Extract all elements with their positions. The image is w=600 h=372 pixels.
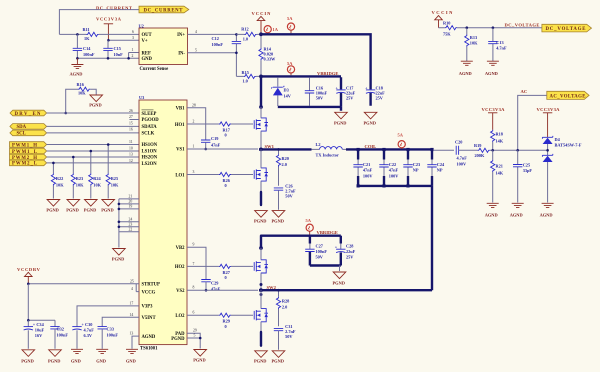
svg-text:R15: R15 xyxy=(242,70,249,75)
svg-text:R20: R20 xyxy=(282,156,289,161)
svg-text:12: 12 xyxy=(129,159,133,163)
svg-text:Current Sense: Current Sense xyxy=(140,67,169,72)
capacitor C31 xyxy=(274,328,283,330)
svg-text:14: 14 xyxy=(130,313,134,317)
svg-text:1: 1 xyxy=(193,144,195,148)
svg-text:R19: R19 xyxy=(474,143,481,148)
svg-text:100nF: 100nF xyxy=(107,332,119,337)
svg-text:1K: 1K xyxy=(84,36,90,41)
svg-text:6: 6 xyxy=(193,311,195,315)
ground AGND (R13) xyxy=(461,61,473,65)
svg-text:25V: 25V xyxy=(346,95,354,100)
svg-text:100nF: 100nF xyxy=(83,52,95,57)
svg-text:AGND: AGND xyxy=(510,212,523,217)
svg-text:75K: 75K xyxy=(443,32,451,37)
svg-text:C33: C33 xyxy=(107,327,114,332)
resistor R12 xyxy=(236,33,261,35)
svg-text:25V: 25V xyxy=(346,254,354,259)
svg-text:15: 15 xyxy=(129,121,133,125)
svg-text:SDA: SDA xyxy=(17,125,27,130)
svg-text:AGND: AGND xyxy=(485,212,498,217)
resistor R14 shunt xyxy=(260,35,262,75)
svg-text:IN-: IN- xyxy=(178,52,185,57)
svg-text:VCCDRV: VCCDRV xyxy=(17,267,41,272)
resistor R28 snubber xyxy=(278,290,280,326)
wire HO2 xyxy=(187,265,253,267)
svg-text:47nF: 47nF xyxy=(389,168,399,173)
svg-text:C32: C32 xyxy=(57,327,64,332)
capacitor C29 xyxy=(201,280,210,282)
svg-text:HO1: HO1 xyxy=(175,123,185,128)
svg-text:AC: AC xyxy=(521,89,528,94)
svg-text:VCC3V3A: VCC3V3A xyxy=(537,107,561,112)
svg-text:PGND: PGND xyxy=(89,103,101,108)
svg-text:19: 19 xyxy=(129,205,133,209)
U3 unused pin group 24,23,22 stubs xyxy=(119,222,139,232)
svg-text:4: 4 xyxy=(195,30,197,34)
ground PGND (C26) xyxy=(272,211,285,218)
svg-text:C25: C25 xyxy=(523,162,530,167)
svg-text:24: 24 xyxy=(129,217,133,221)
wire PWM2_L xyxy=(47,162,139,164)
svg-text:GND: GND xyxy=(71,359,81,364)
wire DC_VOLTAGE net xyxy=(467,27,542,29)
ground AGND (R21) xyxy=(487,203,499,207)
capacitor C23 xyxy=(407,149,409,159)
wire VCCIN bus (thick) xyxy=(261,34,371,82)
svg-text:50V: 50V xyxy=(285,334,293,339)
svg-text:10nF: 10nF xyxy=(114,52,124,57)
svg-text:NP: NP xyxy=(437,168,443,173)
wire V5INT to C33 xyxy=(102,317,139,326)
wire VBRIDGE lower rail (thick) xyxy=(278,107,341,111)
svg-text:11: 11 xyxy=(129,140,133,144)
svg-text:TX Inductor: TX Inductor xyxy=(316,152,339,157)
wire V3P3 to C30 xyxy=(77,306,139,327)
resistor R23 xyxy=(72,157,74,199)
svg-text:PGND: PGND xyxy=(272,359,284,364)
ground PGND (C34) xyxy=(22,350,35,357)
node junction C14 top xyxy=(76,33,79,36)
resistor R24 xyxy=(90,151,92,199)
svg-text:1.0: 1.0 xyxy=(243,37,248,42)
svg-text:AGND: AGND xyxy=(485,71,498,76)
U3 right pin numbers xyxy=(192,103,197,337)
capacitor C12 xyxy=(235,34,237,52)
svg-text:PGND: PGND xyxy=(193,358,205,363)
svg-text:13: 13 xyxy=(130,332,134,336)
wire SW1 bus (thick) xyxy=(259,148,312,150)
svg-text:C12: C12 xyxy=(212,36,219,41)
svg-text:10K: 10K xyxy=(111,183,119,188)
svg-text:13: 13 xyxy=(129,153,133,157)
svg-text:47nF: 47nF xyxy=(211,287,221,292)
svg-text:R12: R12 xyxy=(241,27,248,32)
svg-text:2: 2 xyxy=(193,120,195,124)
wire VBRIDGE bus (thick) xyxy=(261,75,341,77)
svg-text:4: 4 xyxy=(131,287,133,291)
svg-text:5A: 5A xyxy=(287,61,293,66)
svg-text:22uF: 22uF xyxy=(346,249,356,254)
port DRV_EN xyxy=(10,110,47,117)
svg-text:R24: R24 xyxy=(93,176,101,181)
capacitor C22 xyxy=(383,149,385,159)
svg-text:PGND: PGND xyxy=(272,218,284,223)
capacitor C13 xyxy=(492,28,494,61)
svg-text:16: 16 xyxy=(129,128,133,132)
wire PWM1_H xyxy=(47,144,139,146)
svg-text:R28: R28 xyxy=(282,299,289,304)
ground GND (U3 agnd) xyxy=(126,349,138,353)
svg-text:0: 0 xyxy=(225,183,227,188)
capacitor C28 xyxy=(340,236,342,244)
ground PGND (R23) xyxy=(67,200,80,207)
svg-text:VS2: VS2 xyxy=(176,289,185,294)
svg-text:STRTUP: STRTUP xyxy=(142,282,160,287)
wire Q3 source to SW2 xyxy=(260,273,262,289)
svg-text:PGND: PGND xyxy=(334,120,346,125)
wire VCCDRV down xyxy=(28,284,55,327)
wire SDA xyxy=(47,125,139,127)
capacitor C14 xyxy=(76,34,78,58)
svg-text:GND: GND xyxy=(142,57,153,62)
svg-text:20: 20 xyxy=(129,200,133,204)
capacitor C30 xyxy=(72,327,81,330)
wire PWM1_L xyxy=(47,150,139,152)
wire COIL to C20 xyxy=(433,149,454,151)
resistor R11 xyxy=(87,32,99,36)
transistor Q3 high-side xyxy=(254,260,268,273)
svg-text:PGND: PGND xyxy=(254,359,266,364)
fuse probe 1A xyxy=(264,26,271,33)
svg-text:AGND: AGND xyxy=(459,71,472,76)
ground AGND (C25) xyxy=(512,203,524,207)
wire Q4 source stub xyxy=(260,322,262,331)
U3 left pin names xyxy=(142,110,160,340)
ground PGND (unused pins) xyxy=(113,249,126,256)
svg-text:25V: 25V xyxy=(376,95,384,100)
wire VBRIDGE2 bus (thick) xyxy=(261,234,341,236)
svg-text:OUT: OUT xyxy=(142,33,153,38)
svg-text:AGND: AGND xyxy=(540,212,553,217)
ground PGND (C27/C28) xyxy=(333,272,346,279)
wire VB1 to C19 xyxy=(187,108,206,140)
resistor R19 xyxy=(478,148,490,152)
svg-text:R16: R16 xyxy=(77,82,85,87)
svg-text:100nF: 100nF xyxy=(316,249,328,254)
svg-text:47nF: 47nF xyxy=(211,143,221,148)
wire PWM2_H xyxy=(47,156,139,158)
svg-text:100V: 100V xyxy=(363,173,373,178)
capacitor C33 xyxy=(98,327,107,329)
svg-text:10K: 10K xyxy=(93,183,101,188)
svg-text:C19: C19 xyxy=(211,136,218,141)
svg-text:DRV_EN: DRV_EN xyxy=(15,112,42,117)
svg-text:PGND: PGND xyxy=(84,208,96,213)
ground PGND (R25) xyxy=(102,200,115,207)
svg-text:26: 26 xyxy=(129,109,133,113)
svg-text:C22: C22 xyxy=(389,162,396,167)
resistor R16 xyxy=(66,89,97,113)
svg-text:100nF: 100nF xyxy=(57,332,69,337)
svg-text:10uF: 10uF xyxy=(35,328,45,333)
op-amp U2 current sense box xyxy=(132,23,198,72)
svg-text:GND: GND xyxy=(126,359,136,364)
svg-text:100nF: 100nF xyxy=(212,42,224,47)
wire C27/C28 bottom bus (thick) xyxy=(310,264,341,266)
svg-text:5A: 5A xyxy=(398,133,404,138)
ground PGND (U3 pad) xyxy=(194,350,207,357)
svg-text:100V: 100V xyxy=(389,173,399,178)
svg-text:AGND: AGND xyxy=(142,335,156,340)
svg-text:47nF: 47nF xyxy=(363,168,373,173)
svg-text:1A: 1A xyxy=(273,27,279,32)
svg-text:PGND: PGND xyxy=(333,280,345,285)
transistor Q4 low-side xyxy=(254,309,268,322)
wire Q2 source stub xyxy=(260,181,262,191)
wire unused pins tie xyxy=(118,199,120,248)
svg-text:GND: GND xyxy=(96,359,106,364)
ground PGND (C32) xyxy=(49,350,62,357)
capacitor C17 xyxy=(340,77,342,107)
resistor R22 xyxy=(52,163,54,199)
capacitor C18 xyxy=(369,82,371,106)
svg-text:PGND: PGND xyxy=(101,208,113,213)
svg-text:21: 21 xyxy=(129,195,133,199)
svg-text:C23: C23 xyxy=(413,162,420,167)
port SDA xyxy=(10,124,47,131)
svg-text:10K: 10K xyxy=(76,183,84,188)
svg-text:C27: C27 xyxy=(316,244,324,249)
svg-text:C29: C29 xyxy=(211,281,218,286)
svg-text:SCLK: SCLK xyxy=(142,131,155,136)
svg-text:PGND: PGND xyxy=(21,359,33,364)
svg-text:REF: REF xyxy=(142,51,152,56)
ground AGND (D4) xyxy=(542,203,554,207)
svg-text:PGND: PGND xyxy=(254,218,266,223)
svg-text:TS61001: TS61001 xyxy=(140,347,158,352)
svg-text:3: 3 xyxy=(193,170,195,174)
svg-text:SCL: SCL xyxy=(17,132,26,137)
svg-text:PGND: PGND xyxy=(364,120,376,125)
svg-text:R22: R22 xyxy=(56,176,63,181)
ground PGND (C31) xyxy=(272,351,285,358)
svg-text:VBRIDGE: VBRIDGE xyxy=(317,230,339,235)
U3 unused pin group 21,20,19 stubs xyxy=(119,199,139,209)
svg-text:PGND: PGND xyxy=(46,208,58,213)
svg-text:33pF: 33pF xyxy=(523,168,533,173)
capacitor C25 xyxy=(517,150,519,202)
resistor R20 snubber xyxy=(278,149,280,185)
wire V+ net xyxy=(108,39,139,41)
svg-text:AC_VOLTAGE: AC_VOLTAGE xyxy=(550,94,586,99)
svg-text:LO2: LO2 xyxy=(175,314,185,319)
resistor R27 xyxy=(219,264,231,268)
svg-text:PWM2_L: PWM2_L xyxy=(12,162,37,167)
port PWM1_H xyxy=(10,142,47,149)
svg-text:C14: C14 xyxy=(83,46,91,51)
svg-text:2.0: 2.0 xyxy=(282,162,287,167)
port PWM2_L xyxy=(10,160,47,167)
svg-text:R23: R23 xyxy=(76,176,83,181)
svg-text:U2: U2 xyxy=(139,23,144,28)
ground PGND (R22) xyxy=(47,200,60,207)
ground PGND (C18) xyxy=(364,112,377,119)
ground AGND (C13) xyxy=(487,61,499,65)
svg-text:U3: U3 xyxy=(139,95,144,100)
svg-text:PGND: PGND xyxy=(48,359,60,364)
svg-text:14V: 14V xyxy=(284,93,292,98)
svg-text:V5INT: V5INT xyxy=(142,316,157,321)
svg-text:14K: 14K xyxy=(496,171,504,176)
svg-text:50V: 50V xyxy=(285,193,293,198)
port PWM1_L xyxy=(10,148,47,155)
wire from DC_CURRENT port left and down xyxy=(59,10,139,35)
svg-text:HO2: HO2 xyxy=(175,265,185,270)
svg-text:C24: C24 xyxy=(437,162,445,167)
svg-text:PGND: PGND xyxy=(171,337,185,342)
svg-text:9: 9 xyxy=(193,243,195,247)
svg-text:SLEEP: SLEEP xyxy=(142,112,157,117)
wire DRV_EN xyxy=(47,112,139,114)
ground PGND (R24) xyxy=(85,200,98,207)
svg-text:10K: 10K xyxy=(470,40,478,45)
pin stub PGOOD xyxy=(130,119,140,121)
svg-text:1.0: 1.0 xyxy=(242,78,247,83)
capacitor C19 xyxy=(201,140,210,142)
IC U3 box xyxy=(139,100,187,345)
svg-text:+ C30: + C30 xyxy=(82,322,93,327)
svg-text:VCCIN: VCCIN xyxy=(432,10,454,15)
svg-text:6.3V: 6.3V xyxy=(84,333,93,338)
resistor R29 xyxy=(219,313,231,317)
svg-text:10: 10 xyxy=(129,146,133,150)
port PWM2_H xyxy=(10,154,47,161)
svg-text:SDATA: SDATA xyxy=(142,125,158,130)
svg-text:VCC3V3A: VCC3V3A xyxy=(96,17,122,22)
svg-text:AGND: AGND xyxy=(70,72,83,77)
resistor R10 xyxy=(439,27,467,29)
capacitor C20 (horizontal) xyxy=(456,146,458,155)
svg-text:28: 28 xyxy=(192,103,196,107)
svg-text:VCCG: VCCG xyxy=(142,290,156,295)
svg-text:4.7nF: 4.7nF xyxy=(457,155,468,160)
ground GND (C33) xyxy=(96,349,108,353)
svg-text:5A: 5A xyxy=(287,16,293,21)
svg-text:5: 5 xyxy=(195,48,197,52)
svg-text:29: 29 xyxy=(193,329,197,333)
capacitor C16 xyxy=(309,78,311,106)
svg-text:VCCIN: VCCIN xyxy=(252,11,272,16)
svg-text:VB2: VB2 xyxy=(176,246,186,251)
U3 PAD/PGND pins bracket xyxy=(187,333,200,348)
svg-text:200K: 200K xyxy=(475,153,485,158)
node VCCIN bus junction xyxy=(259,32,263,36)
svg-text:27: 27 xyxy=(129,115,133,119)
svg-text:C28: C28 xyxy=(346,244,353,249)
ground PGND (C17) xyxy=(335,112,348,119)
wire VS2 xyxy=(187,289,258,291)
resistor R17 xyxy=(219,122,231,126)
port DC_VOLTAGE xyxy=(542,24,592,32)
resistor R21 xyxy=(492,150,494,160)
ground PGND (R16) xyxy=(90,95,103,102)
svg-text:0: 0 xyxy=(225,324,227,329)
node COIL junctions xyxy=(357,148,360,151)
svg-text:2.0: 2.0 xyxy=(282,304,287,309)
zener diode D3 xyxy=(277,78,279,106)
svg-text:LO1: LO1 xyxy=(175,173,185,178)
svg-text:10K: 10K xyxy=(78,91,86,96)
svg-text:3: 3 xyxy=(132,36,134,40)
svg-text:4.7uF: 4.7uF xyxy=(84,328,95,333)
ground PGND (Q2) xyxy=(255,211,268,218)
wire HO1 xyxy=(187,123,253,125)
svg-text:8: 8 xyxy=(193,286,195,290)
wire VS1 xyxy=(187,148,258,150)
port SCL xyxy=(10,130,47,137)
wire VBRIDGE2 stub to Q3 xyxy=(260,236,262,248)
svg-text:R10: R10 xyxy=(443,20,450,25)
svg-text:VS1: VS1 xyxy=(176,148,185,153)
capacitor C32 xyxy=(50,327,59,329)
svg-text:D3: D3 xyxy=(284,88,289,93)
svg-text:23: 23 xyxy=(129,222,133,226)
wire VB2 to C29 xyxy=(187,247,206,279)
wire VCCIN rail to Q1 drain xyxy=(260,107,262,118)
wire LO2 xyxy=(187,314,253,316)
svg-text:COIL: COIL xyxy=(365,144,377,149)
svg-text:R11: R11 xyxy=(83,27,90,32)
svg-text:0: 0 xyxy=(225,275,227,280)
svg-text:D4: D4 xyxy=(555,137,561,142)
ground AGND (U2) xyxy=(76,58,78,64)
svg-text:V+: V+ xyxy=(142,39,148,44)
capacitor C21 xyxy=(357,149,359,159)
svg-text:2: 2 xyxy=(132,54,134,58)
svg-text:6: 6 xyxy=(132,30,134,34)
svg-text:L2: L2 xyxy=(316,142,321,147)
svg-text:22: 22 xyxy=(129,227,133,231)
svg-text:DC_VOLTAGE: DC_VOLTAGE xyxy=(546,27,586,32)
wire COIL bottom bus (thick) xyxy=(358,186,432,290)
transistor Q1 high-side xyxy=(254,118,268,131)
wire Q3 drain lead xyxy=(260,248,262,260)
svg-text:7: 7 xyxy=(193,262,195,266)
resistor R18 xyxy=(491,130,495,142)
wire SW2 to Q4 drain xyxy=(260,290,262,308)
resistor R26 xyxy=(219,172,231,176)
svg-text:LS1ON: LS1ON xyxy=(142,150,158,155)
svg-text:C20: C20 xyxy=(455,140,462,145)
wire Q1 source to SW1 xyxy=(260,131,262,148)
ground GND (C30) xyxy=(71,349,83,353)
svg-text:1: 1 xyxy=(132,48,134,52)
svg-text:IN+: IN+ xyxy=(177,33,185,38)
svg-text:PGOOD: PGOOD xyxy=(142,118,160,123)
wire REF/GND rail xyxy=(77,53,139,59)
resistor R25 xyxy=(107,145,109,199)
wire SW2 bus (thick) xyxy=(259,289,432,291)
wire COIL bus (thick) xyxy=(346,148,432,150)
svg-text:R18: R18 xyxy=(496,132,503,137)
wire OUT net xyxy=(59,33,139,35)
svg-text:C13: C13 xyxy=(496,40,503,45)
svg-text:LS2ON: LS2ON xyxy=(142,162,158,167)
wire VCCDRV to STRTUP/VCCG xyxy=(28,284,139,292)
wire AGND pin 13 xyxy=(132,336,139,349)
wire AC xyxy=(518,95,547,150)
